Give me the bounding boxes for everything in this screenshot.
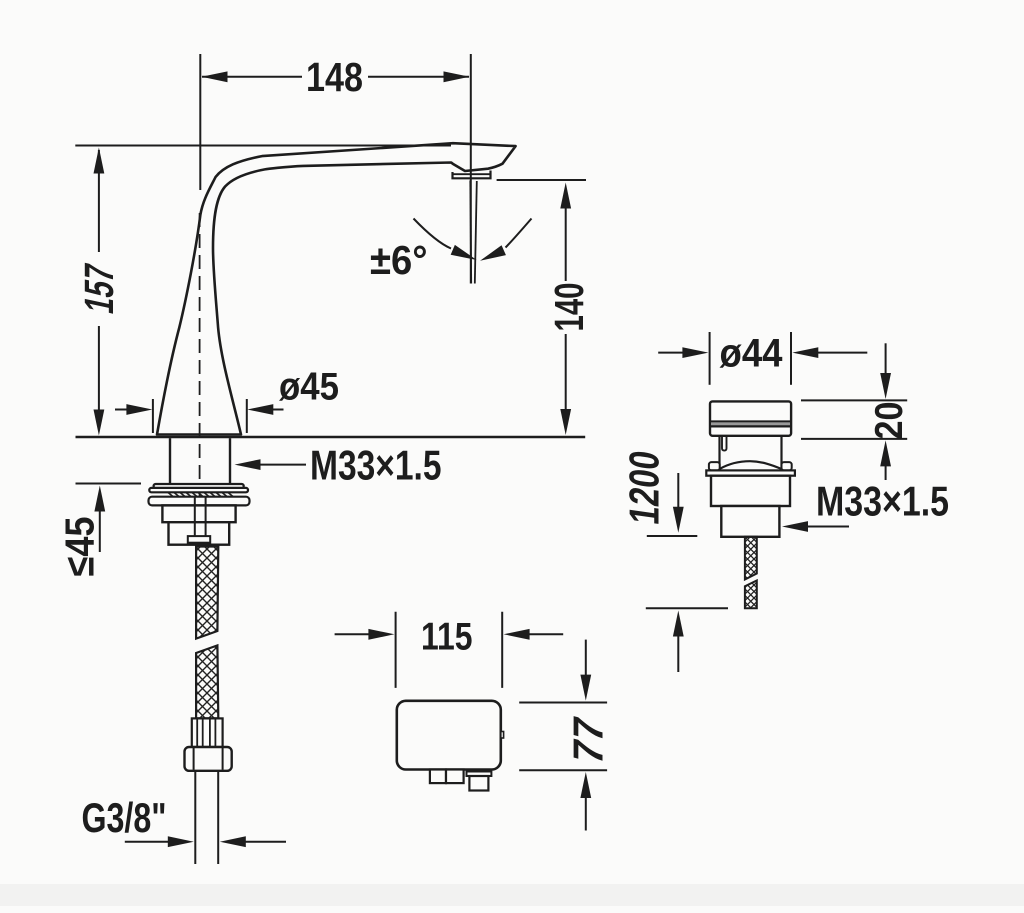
svg-text:ø45: ø45 [279, 366, 339, 409]
svg-text:157: 157 [75, 260, 121, 318]
svg-text:140: 140 [546, 283, 592, 332]
svg-text:ø44: ø44 [720, 332, 783, 376]
svg-text:≤45: ≤45 [56, 517, 102, 577]
svg-text:20: 20 [868, 402, 911, 440]
svg-text:M33×1.5: M33×1.5 [816, 478, 949, 525]
svg-text:±6°: ±6° [370, 237, 428, 283]
svg-text:M33×1.5: M33×1.5 [310, 441, 442, 488]
svg-text:148: 148 [306, 54, 363, 100]
svg-text:G3/8": G3/8" [82, 794, 167, 841]
svg-text:115: 115 [421, 616, 473, 659]
svg-text:1200: 1200 [621, 448, 668, 528]
